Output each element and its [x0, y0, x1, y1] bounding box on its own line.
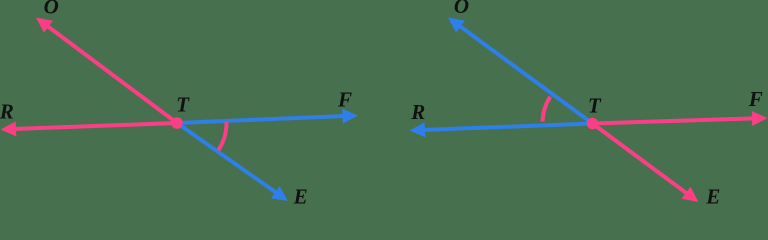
node T vertex dot (right) — [587, 118, 599, 130]
wire: ray T to F (pink) — [593, 111, 768, 126]
svg-text:F: F — [337, 87, 352, 111]
svg-text:R: R — [410, 100, 425, 124]
svg-text:F: F — [748, 87, 763, 111]
svg-text:T: T — [588, 93, 602, 117]
wire: ray T to E (pink) — [593, 124, 699, 203]
wire: ray T to O (blue) — [448, 18, 593, 124]
wire: ray T to R (blue) — [410, 122, 593, 137]
svg-text:E: E — [293, 184, 308, 204]
svg-text:R: R — [0, 100, 14, 124]
svg-text:O: O — [44, 0, 59, 19]
angle arc OTR (pink) — [543, 97, 551, 122]
wire: ray T to O (pink) — [36, 18, 177, 124]
angle arc FTE (pink) — [218, 122, 226, 151]
svg-text:E: E — [705, 184, 720, 204]
svg-text:T: T — [176, 93, 190, 117]
node T vertex dot (left) — [171, 117, 183, 129]
wire: ray T to F (blue) — [177, 109, 358, 124]
svg-text:O: O — [454, 0, 469, 18]
wire: ray T to E (blue) — [177, 123, 288, 201]
wire: ray T to R (pink) — [1, 121, 178, 136]
